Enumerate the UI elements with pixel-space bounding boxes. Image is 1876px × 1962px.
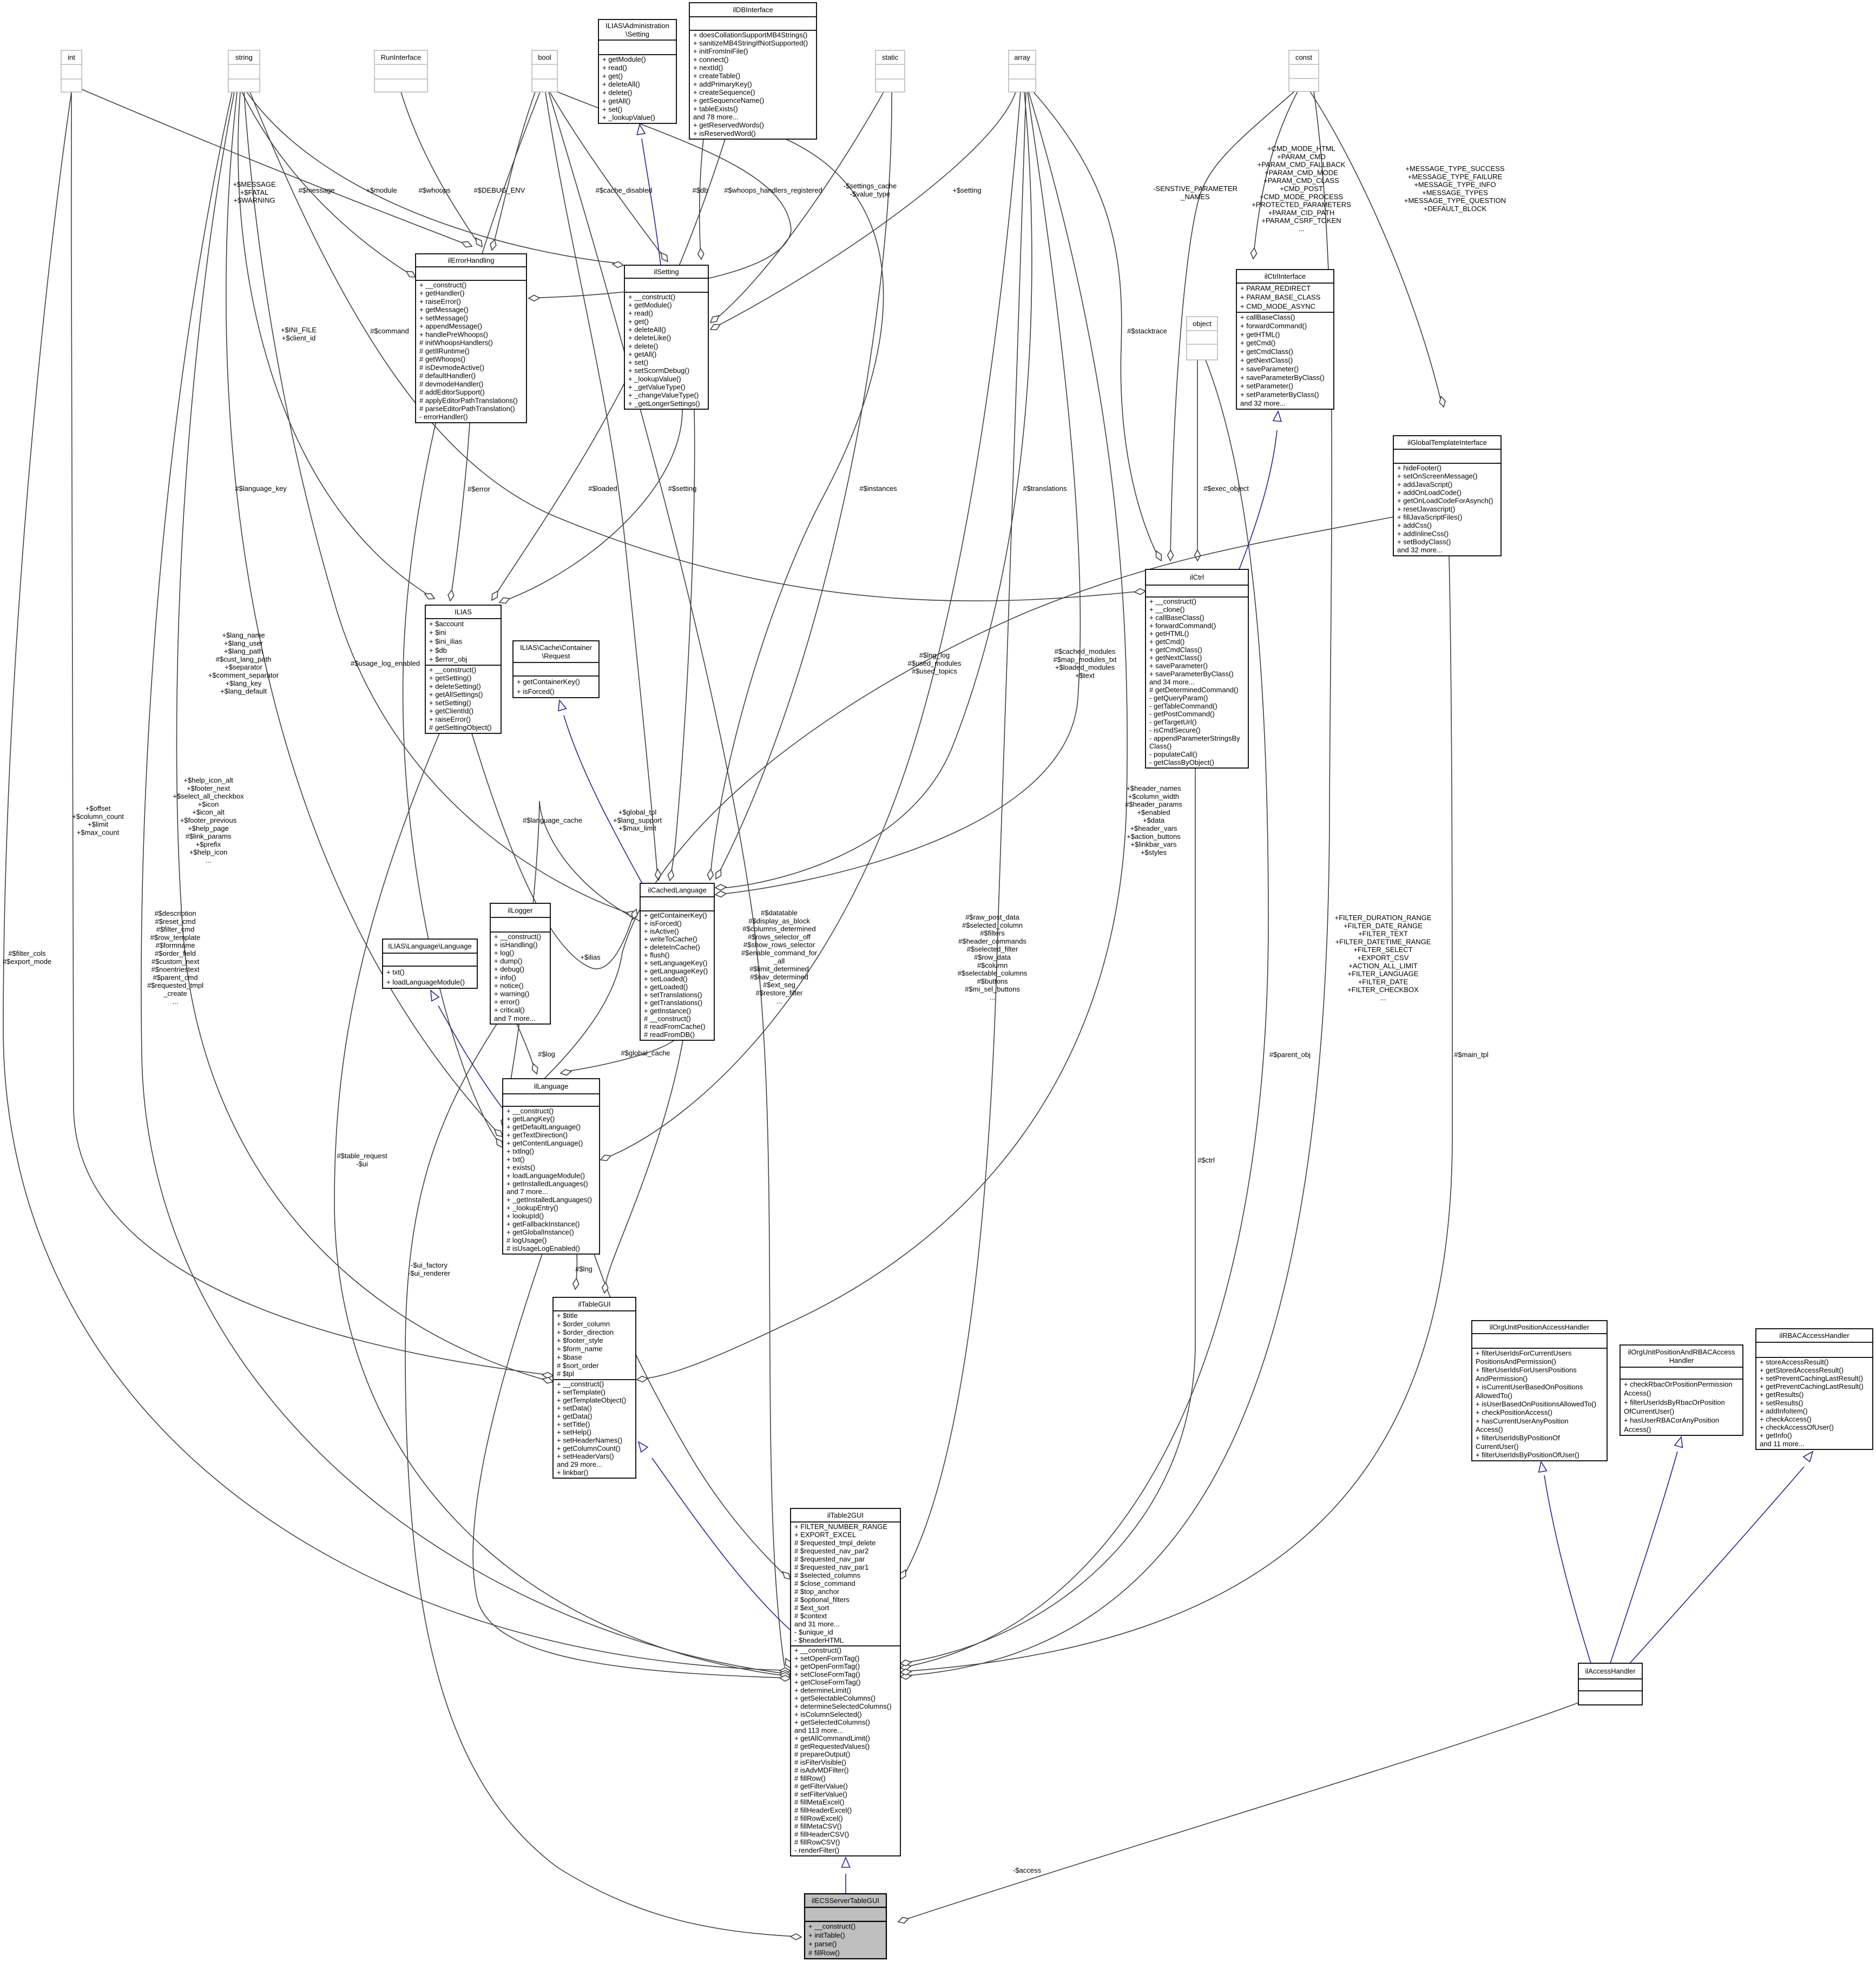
wire to (796,1830)	[438, 1006, 503, 1108]
svg-text:and 78 more...: and 78 more...	[693, 113, 739, 121]
svg-text:# logUsage(): # logUsage()	[506, 1236, 547, 1244]
svg-text:+ forwardCommand(): + forwardCommand()	[1149, 621, 1216, 629]
svg-text:- $unique_id: - $unique_id	[794, 1628, 833, 1636]
svg-text:+MESSAGE_TYPE_FAILURE: +MESSAGE_TYPE_FAILURE	[1408, 173, 1503, 181]
class array	[1009, 50, 1036, 92]
svg-text:#$setting: #$setting	[668, 484, 697, 493]
svg-text:+ read(): + read()	[602, 63, 627, 71]
svg-text:# fillMetaCSV(): # fillMetaCSV()	[794, 1822, 841, 1830]
svg-text:ilSetting: ilSetting	[654, 268, 679, 276]
svg-text:+ filterUserIdsByRbacOrPositio: + filterUserIdsByRbacOrPosition	[1624, 1398, 1725, 1406]
svg-text:#$cache_disabled: #$cache_disabled	[596, 186, 653, 194]
svg-text:# $tpl: # $tpl	[557, 1370, 574, 1378]
svg-text:#$datatable: #$datatable	[761, 909, 798, 917]
edge label +$help_icon_alt	[173, 776, 244, 864]
svg-text:# $close_command: # $close_command	[794, 1579, 855, 1587]
svg-text:+$WARNING: +$WARNING	[233, 196, 275, 205]
svg-text:+FILTER_DATE_RANGE: +FILTER_DATE_RANGE	[1344, 922, 1423, 930]
svg-text:# initWhoopsHandlers(): # initWhoopsHandlers()	[419, 339, 493, 347]
svg-text:ILIAS: ILIAS	[455, 608, 472, 616]
wire to (2848,2701)	[1544, 1475, 1591, 1663]
svg-text:+ checkAccessOfUser(): + checkAccessOfUser()	[1760, 1423, 1834, 1432]
class Language	[383, 939, 477, 988]
svg-text:and 34 more...: and 34 more...	[1149, 678, 1195, 686]
svg-text:- errorHandler(): - errorHandler()	[419, 413, 468, 421]
svg-text:+ getSequenceName(): + getSequenceName()	[693, 96, 764, 104]
wire to (1063,2382)	[576, 1254, 577, 1285]
edge label #$stacktrace	[1127, 327, 1167, 335]
svg-text:- $headerHTML: - $headerHTML	[794, 1636, 844, 1644]
class ilGlobalTemplateInterface	[1393, 436, 1501, 556]
svg-text:ilTable2GUI: ilTable2GUI	[827, 1511, 864, 1519]
svg-text:#$language_cache: #$language_cache	[523, 816, 582, 824]
wire to (929,2100)	[226, 92, 501, 1136]
svg-text:+ txtlng(): + txtlng()	[506, 1147, 534, 1156]
svg-text:- getPostCommand(): - getPostCommand()	[1149, 710, 1215, 718]
svg-text:#$requested_tmpl: #$requested_tmpl	[147, 981, 203, 989]
svg-text:+ getTranslations(): + getTranslations()	[644, 999, 702, 1007]
svg-text:+ $ini_ilias: + $ini_ilias	[429, 638, 463, 646]
edge label +MESSAGE_TYPE_SUCCESS	[1404, 165, 1506, 213]
class ilDBInterface	[689, 3, 817, 139]
svg-text:ilOrgUnitPositionAccessHandler: ilOrgUnitPositionAccessHandler	[1490, 1323, 1590, 1331]
edge label -$ui_factory	[408, 1261, 451, 1277]
svg-text:ILIAS\Language\Language: ILIAS\Language\Language	[388, 942, 472, 950]
svg-text:+ getCmdClass(): + getCmdClass()	[1240, 347, 1293, 356]
edge label +$lang_name	[208, 631, 279, 695]
class AdminSetting	[598, 19, 676, 123]
wire to (3107,2655)	[1610, 1452, 1677, 1663]
svg-text:#$formname: #$formname	[156, 941, 195, 949]
wire to (1313,609)	[715, 92, 1016, 327]
class ilOrgUnitPositionAccessHandler	[1472, 1321, 1607, 1461]
svg-text:+ setTemplate(): + setTemplate()	[557, 1388, 605, 1396]
svg-text:+ setHelp(): + setHelp()	[557, 1428, 591, 1436]
svg-text:+ getNextClass(): + getNextClass()	[1149, 654, 1202, 662]
svg-text:+ACTION_ALL_LIMIT: +ACTION_ALL_LIMIT	[1348, 962, 1418, 970]
svg-text:+$module: +$module	[366, 186, 397, 194]
wire to (1234,483)	[550, 92, 664, 258]
edge label #$db	[693, 186, 708, 194]
wire to (1217,1626)	[545, 92, 657, 876]
svg-text:PositionsAndPermission(): PositionsAndPermission()	[1476, 1357, 1556, 1366]
svg-text:+ parse(): + parse()	[808, 1940, 837, 1948]
svg-text:+$text: +$text	[1075, 671, 1095, 679]
svg-text:_all: _all	[773, 957, 785, 965]
svg-text:# addEditorSupport(): # addEditorSupport()	[419, 388, 485, 396]
svg-text:+$footer_next: +$footer_next	[187, 784, 230, 792]
svg-text:+ getClientId(): + getClientId()	[429, 707, 473, 715]
svg-text:+ getContainerKey(): + getContainerKey()	[644, 911, 707, 920]
svg-text:+ resetJavascript(): + resetJavascript()	[1397, 505, 1455, 513]
edge label #$command	[370, 327, 409, 335]
svg-text:+FILTER_DATETIME_RANGE: +FILTER_DATETIME_RANGE	[1335, 937, 1431, 946]
class ilTableGUI	[553, 1297, 636, 1478]
svg-text:#$parent_obj: #$parent_obj	[1269, 1051, 1311, 1059]
svg-text:+ _lookupValue(): + _lookupValue()	[628, 375, 681, 383]
edge label #$loaded	[588, 484, 617, 493]
svg-text:#$usage_log_enabled: #$usage_log_enabled	[351, 659, 420, 667]
svg-text:#$nav_determined: #$nav_determined	[750, 973, 808, 981]
svg-text:+ setCloseFormTag(): + setCloseFormTag()	[794, 1670, 860, 1678]
class ilRBACAccessHandler	[1756, 1329, 1873, 1449]
wire to (1180,2664)	[652, 1458, 791, 1630]
svg-text:+ getInstalledLanguages(): + getInstalledLanguages()	[506, 1179, 588, 1187]
edge label #$description	[147, 909, 203, 1006]
svg-text:+ setParameterByClass(): + setParameterByClass()	[1240, 391, 1319, 399]
svg-text:+$lang_name: +$lang_name	[222, 631, 265, 639]
svg-text:+ saveParameter(): + saveParameter()	[1240, 365, 1299, 373]
svg-text:ilCachedLanguage: ilCachedLanguage	[648, 886, 706, 894]
svg-text:+CMD_MODE_PROCESS: +CMD_MODE_PROCESS	[1260, 193, 1344, 201]
wire to (1313,596)	[714, 92, 884, 320]
svg-text:+ setResults(): + setResults()	[1760, 1399, 1803, 1407]
svg-text:# getIlRuntime(): # getIlRuntime()	[419, 347, 469, 355]
svg-text:- getTableCommand(): - getTableCommand()	[1149, 702, 1217, 710]
svg-text:+PARAM_CSRF_TOKEN: +PARAM_CSRF_TOKEN	[1261, 216, 1341, 225]
svg-text:+ __construct(): + __construct()	[429, 666, 476, 674]
svg-text:-$value_type: -$value_type	[850, 190, 890, 198]
svg-text:#$row_template: #$row_template	[150, 933, 201, 941]
svg-text:+ txt(): + txt()	[386, 968, 405, 976]
svg-text:+ loadLanguageModule(): + loadLanguageModule()	[386, 978, 465, 986]
wire to (2163,1036)	[1170, 91, 1294, 556]
svg-text:+ delete(): + delete()	[628, 342, 658, 350]
wire to (1563,3432)	[845, 1874, 846, 1894]
wire to (1461,3082)	[549, 92, 785, 1667]
svg-text:+ getGlobalInstance(): + getGlobalInstance()	[506, 1228, 574, 1236]
svg-text:+CMD_POST: +CMD_POST	[1280, 185, 1323, 193]
svg-text:and 32 more...: and 32 more...	[1397, 546, 1443, 554]
svg-text:+MESSAGE_TYPE_INFO: +MESSAGE_TYPE_INFO	[1414, 181, 1496, 189]
svg-text:# $sort_order: # $sort_order	[557, 1361, 599, 1369]
svg-text:#$used_topics: #$used_topics	[912, 667, 957, 675]
svg-text:+ txt(): + txt()	[506, 1155, 525, 1163]
wire to (2316,478)	[1254, 91, 1298, 254]
svg-text:+ dump(): + dump()	[494, 957, 522, 965]
svg-text:+ hasCurrentUserAnyPosition: + hasCurrentUserAnyPosition	[1476, 1417, 1569, 1425]
svg-text:AllowedTo(): AllowedTo()	[1476, 1392, 1512, 1400]
svg-text:+ setScormDebug(): + setScormDebug()	[628, 366, 689, 375]
svg-text:...: ...	[206, 856, 212, 864]
svg-text:and 113 more...: and 113 more...	[794, 1726, 843, 1734]
svg-text:+ filterUserIdsForCurrentUsers: + filterUserIdsForCurrentUsers	[1476, 1349, 1572, 1357]
svg-text:#$order_field: #$order_field	[155, 949, 196, 957]
svg-text:# fillRowCSV(): # fillRowCSV()	[794, 1838, 840, 1846]
svg-text:#$restore_filter: #$restore_filter	[756, 989, 803, 997]
svg-text:#$link_params: #$link_params	[186, 832, 232, 841]
svg-text:+ deleteAll(): + deleteAll()	[602, 80, 640, 88]
svg-text:#$global_cache: #$global_cache	[621, 1049, 670, 1057]
wire to (872,455)	[82, 89, 469, 245]
svg-text:+FILTER_TEXT: +FILTER_TEXT	[1358, 930, 1408, 938]
svg-text:+FILTER_LANGUAGE: +FILTER_LANGUAGE	[1348, 970, 1419, 978]
svg-text:+ isActive(): + isActive()	[644, 927, 679, 935]
svg-text:+ callBaseClass(): + callBaseClass()	[1240, 313, 1295, 321]
wire to (909,462)	[493, 92, 535, 247]
svg-text:- renderFilter(): - renderFilter()	[794, 1846, 839, 1854]
svg-text:+ connect(): + connect()	[693, 55, 728, 63]
svg-text:#$whoops: #$whoops	[418, 186, 451, 194]
svg-text:+ deleteSetting(): + deleteSetting()	[429, 683, 481, 691]
svg-text:#$message: #$message	[298, 186, 334, 194]
svg-text:+ __construct(): + __construct()	[506, 1107, 554, 1115]
svg-text:and 31 more...: and 31 more...	[794, 1620, 840, 1628]
svg-text:+ addInfoItem(): + addInfoItem()	[1760, 1407, 1808, 1415]
svg-text:...: ...	[1380, 994, 1386, 1002]
svg-text:+$client_id: +$client_id	[282, 334, 316, 342]
wire to (1664,3090)	[905, 556, 1452, 1671]
svg-text:OfCurrentUser(): OfCurrentUser()	[1624, 1407, 1674, 1415]
svg-text:+ delete(): + delete()	[602, 89, 632, 97]
svg-text:+$lang_default: +$lang_default	[220, 687, 267, 695]
svg-text:# getWhoops(): # getWhoops()	[419, 355, 465, 363]
edge label #$language_cache	[523, 816, 582, 824]
edge label #$language_key	[235, 484, 287, 493]
svg-text:# isFilterVisible(): # isFilterVisible()	[794, 1758, 846, 1766]
edge label -$settings_cache	[844, 182, 897, 198]
svg-text:+ getResults(): + getResults()	[1760, 1390, 1803, 1399]
svg-text:# $requested_nav_par1: # $requested_nav_par1	[794, 1563, 868, 1571]
svg-text:+$column_width: +$column_width	[1128, 792, 1179, 800]
wire to (1323,1624)	[718, 92, 892, 875]
svg-text:array: array	[1014, 54, 1030, 62]
svg-text:- appendParameterStringsBy: - appendParameterStringsBy	[1149, 734, 1240, 742]
svg-text:+PROTECTED_PARAMETERS: +PROTECTED_PARAMETERS	[1252, 201, 1351, 209]
svg-text:+ getAll(): + getAll()	[602, 97, 630, 105]
svg-text:+ __clone(): + __clone()	[1149, 606, 1184, 614]
wire to (2117,1092)	[250, 92, 1142, 601]
edge label #$filter_cols	[3, 949, 51, 966]
svg-text:+ setBodyClass(): + setBodyClass()	[1397, 538, 1451, 546]
svg-text:const: const	[1295, 54, 1312, 62]
edge label +$ilias	[580, 953, 601, 961]
svg-text:+ linkbar(): + linkbar()	[557, 1468, 588, 1477]
svg-text:#$map_modules_txt: #$map_modules_txt	[1053, 655, 1116, 664]
svg-text:+ $db: + $db	[429, 646, 447, 654]
svg-text:+FILTER_SELECT: +FILTER_SELECT	[1353, 946, 1412, 954]
svg-text:#$main_tpl: #$main_tpl	[1454, 1051, 1489, 1059]
svg-text:+ doesCollationSupportMB4Strin: + doesCollationSupportMB4Strings()	[693, 31, 807, 39]
svg-text:#$rows_selector_off: #$rows_selector_off	[748, 933, 811, 941]
svg-text:+ setLanguageKey(): + setLanguageKey()	[644, 959, 707, 967]
svg-text:+ getTextDirection(): + getTextDirection()	[506, 1131, 568, 1139]
svg-text:+FILTER_DURATION_RANGE: +FILTER_DURATION_RANGE	[1334, 914, 1431, 922]
wire to (1461,3097)	[334, 733, 785, 1676]
svg-text:+ filterUserIdsForUsersPositio: + filterUserIdsForUsersPositions	[1476, 1366, 1577, 1374]
class RunInterface	[374, 50, 427, 92]
class const	[1289, 50, 1319, 91]
svg-text:+ handlePreWhoops(): + handlePreWhoops()	[419, 330, 488, 338]
svg-text:ilECSServerTableGUI: ilECSServerTableGUI	[812, 1897, 879, 1905]
wire to (832,1110)	[451, 423, 470, 594]
svg-text:# fillRow(): # fillRow()	[808, 1948, 840, 1957]
svg-text:# applyEditorPathTranslations(: # applyEditorPathTranslations()	[419, 396, 518, 404]
svg-text:+ __construct(): + __construct()	[557, 1380, 604, 1388]
svg-text:+ _changeValueType(): + _changeValueType()	[628, 391, 699, 399]
svg-text:-$ui_renderer: -$ui_renderer	[408, 1269, 451, 1277]
svg-text:+$MESSAGE: +$MESSAGE	[233, 180, 275, 188]
svg-text:+$lang_key: +$lang_key	[226, 679, 262, 687]
svg-text:#$loaded: #$loaded	[588, 484, 617, 493]
svg-text:\Setting: \Setting	[626, 30, 649, 38]
svg-text:+ raiseError(): + raiseError()	[429, 716, 471, 724]
svg-text:+ getCmd(): + getCmd()	[1149, 638, 1184, 646]
svg-text:+ isCurrentUserBasedOnPosition: + isCurrentUserBasedOnPositions	[1476, 1383, 1583, 1391]
svg-text:_NAMES: _NAMES	[1180, 193, 1210, 201]
svg-text:#$buttons: #$buttons	[977, 977, 1008, 985]
wire to (923,1113)	[504, 409, 682, 601]
svg-text:+PARAM_CMD: +PARAM_CMD	[1277, 153, 1326, 161]
edge label #$lng_log	[907, 651, 962, 675]
svg-text:Access(): Access()	[1476, 1426, 1503, 1434]
svg-text:#$language_key: #$language_key	[235, 484, 287, 493]
svg-text:#$ctrl: #$ctrl	[1197, 1156, 1215, 1164]
svg-text:+$comment_separator: +$comment_separator	[208, 671, 279, 679]
svg-text:#$cached_modules: #$cached_modules	[1055, 647, 1116, 655]
svg-text:+ log(): + log()	[494, 949, 514, 957]
edge label +CMD_MODE_HTML	[1252, 145, 1351, 233]
svg-text:#$translations: #$translations	[1023, 484, 1067, 493]
wire to (2668,752)	[1310, 91, 1441, 403]
svg-text:+ setSetting(): + setSetting()	[429, 699, 471, 707]
svg-text:+ set(): + set()	[628, 358, 648, 366]
svg-text:+ getTemplateObject(): + getTemplateObject()	[557, 1396, 626, 1404]
svg-text:+ nextId(): + nextId()	[693, 64, 723, 72]
svg-text:+ getColumnCount(): + getColumnCount()	[557, 1444, 620, 1452]
svg-text:+ setPreventCachingLastResult(: + setPreventCachingLastResult()	[1760, 1374, 1863, 1382]
svg-text:+ createTable(): + createTable()	[693, 72, 740, 80]
svg-text:+$help_icon: +$help_icon	[189, 848, 227, 856]
svg-text:+ __construct(): + __construct()	[419, 281, 466, 289]
svg-text:+ get(): + get()	[628, 317, 649, 325]
edge label +$offset	[72, 804, 124, 836]
svg-text:+ writeToCache(): + writeToCache()	[644, 935, 697, 943]
svg-text:# $selected_columns: # $selected_columns	[794, 1571, 861, 1579]
svg-text:+ getReservedWords(): + getReservedWords()	[693, 121, 764, 129]
svg-text:int: int	[68, 54, 75, 62]
svg-text:# getSettingObject(): # getSettingObject()	[429, 724, 492, 732]
svg-text:# $ext_sort: # $ext_sort	[794, 1604, 830, 1612]
svg-text:#$column: #$column	[977, 961, 1008, 969]
wire to (1110,2143)	[605, 92, 1021, 1158]
svg-text:ilCtrl: ilCtrl	[1190, 573, 1204, 581]
svg-text:+$lang_user: +$lang_user	[224, 639, 264, 647]
edge label #$cache_disabled	[596, 186, 653, 194]
svg-text:...: ...	[776, 997, 782, 1005]
svg-text:+ getOpenFormTag(): + getOpenFormTag()	[794, 1662, 860, 1670]
svg-text:+ determineLimit(): + determineLimit()	[794, 1687, 851, 1695]
svg-text:+ $order_column: + $order_column	[557, 1320, 610, 1328]
wire to (1296,479)	[700, 139, 703, 255]
svg-text:ilTableGUI: ilTableGUI	[578, 1300, 611, 1308]
svg-text:+ determineSelectedColumns(): + determineSelectedColumns()	[794, 1702, 892, 1710]
svg-text:string: string	[235, 54, 253, 62]
svg-text:+ getCloseFormTag(): + getCloseFormTag()	[794, 1678, 860, 1687]
svg-text:-$settings_cache: -$settings_cache	[844, 182, 897, 190]
wire to (1461,3087)	[3, 92, 786, 1670]
svg-text:#$cust_lang_path: #$cust_lang_path	[216, 655, 272, 663]
svg-text:# getRequestedValues(): # getRequestedValues()	[794, 1742, 870, 1750]
svg-text:ILIAS\Cache\Container: ILIAS\Cache\Container	[520, 644, 593, 652]
svg-text:+ $order_direction: + $order_direction	[557, 1328, 614, 1336]
svg-text:+$help_page: +$help_page	[188, 824, 229, 832]
edge label #$global_cache	[621, 1049, 670, 1057]
svg-text:# $top_anchor: # $top_anchor	[794, 1587, 840, 1596]
svg-text:ilAccessHandler: ilAccessHandler	[1585, 1667, 1636, 1675]
svg-text:#$header_commands: #$header_commands	[958, 937, 1026, 945]
wire to (1312,1626)	[710, 139, 884, 876]
edge label +$MESSAGE	[233, 180, 275, 205]
svg-text:ilDBInterface: ilDBInterface	[733, 6, 773, 14]
svg-text:+ getNextClass(): + getNextClass()	[1240, 356, 1293, 364]
svg-text:+ getAllCommandLimit(): + getAllCommandLimit()	[794, 1734, 870, 1742]
svg-text:+ setHeaderVars(): + setHeaderVars()	[557, 1452, 614, 1460]
svg-text:...: ...	[1299, 225, 1305, 233]
svg-text:...: ...	[173, 998, 179, 1006]
svg-text:+FILTER_CHECKBOX: +FILTER_CHECKBOX	[1347, 986, 1419, 994]
svg-text:+ isColumnSelected(): + isColumnSelected()	[794, 1710, 862, 1718]
svg-text:#$whoops_handlers_registered: #$whoops_handlers_registered	[724, 186, 822, 194]
svg-text:# devmodeHandler(): # devmodeHandler()	[419, 380, 484, 388]
wire to (1664,2918)	[904, 92, 1026, 1576]
class ILIAS	[425, 605, 501, 733]
wire to (1238,1627)	[670, 409, 695, 877]
edge label #$instances	[859, 484, 897, 493]
svg-text:#$selectable_columns: #$selectable_columns	[958, 969, 1028, 977]
svg-text:-SENSTIVE_PARAMETER: -SENSTIVE_PARAMETER	[1153, 185, 1237, 193]
svg-text:+ _lookupEntry(): + _lookupEntry()	[506, 1204, 558, 1212]
svg-text:+ setMessage(): + setMessage()	[419, 314, 468, 322]
edge label +$module	[366, 186, 397, 194]
svg-text:Access(): Access()	[1624, 1389, 1651, 1397]
svg-text:+ appendMessage(): + appendMessage()	[419, 322, 482, 330]
svg-text:AndPermission(): AndPermission()	[1476, 1374, 1528, 1382]
svg-text:+ saveParameterByClass(): + saveParameterByClass()	[1149, 670, 1234, 678]
svg-text:+ createSequence(): + createSequence()	[693, 88, 755, 96]
svg-text:...: ...	[990, 993, 996, 1001]
svg-text:+ isReservedWord(): + isReservedWord()	[693, 129, 756, 137]
wire to (909,1109)	[495, 139, 725, 596]
svg-text:+ CMD_MODE_ASYNC: + CMD_MODE_ASYNC	[1240, 302, 1315, 310]
svg-text:+ error(): + error()	[494, 998, 519, 1006]
svg-text:# setFilterValue(): # setFilterValue()	[794, 1790, 847, 1799]
svg-text:+PARAM_CMD_FALLBACK: +PARAM_CMD_FALLBACK	[1258, 161, 1346, 169]
svg-text:bool: bool	[538, 54, 551, 62]
svg-text:+ lookupId(): + lookupId()	[506, 1212, 544, 1220]
svg-text:#$used_modules: #$used_modules	[907, 659, 962, 667]
svg-text:#$custom_next: #$custom_next	[152, 957, 200, 966]
svg-text:+ setHeaderNames(): + setHeaderNames()	[557, 1436, 622, 1445]
svg-text:#$filter_cols: #$filter_cols	[8, 949, 46, 957]
class bool	[532, 50, 557, 92]
svg-text:#$table_request: #$table_request	[337, 1152, 387, 1160]
svg-text:+ getData(): + getData()	[557, 1412, 592, 1420]
svg-text:-$ui_factory: -$ui_factory	[411, 1261, 447, 1269]
svg-text:+ getLanguageKey(): + getLanguageKey()	[644, 967, 708, 975]
wire to (2362,760)	[1239, 430, 1277, 569]
svg-text:-$ui: -$ui	[356, 1160, 368, 1168]
svg-text:+ $title: + $title	[557, 1311, 578, 1320]
wire to (1461,3101)	[473, 1254, 784, 1678]
wire to (1022,2542)	[71, 92, 548, 1375]
svg-text:#$enable_command_for: #$enable_command_for	[741, 949, 818, 957]
svg-text:- getTargetUrl(): - getTargetUrl()	[1149, 718, 1196, 726]
svg-text:+$data: +$data	[1143, 816, 1165, 824]
svg-text:+ storeAccessResult(): + storeAccessResult()	[1760, 1358, 1829, 1366]
svg-text:+$offset: +$offset	[85, 804, 111, 812]
svg-text:+PARAM_CID_PATH: +PARAM_CID_PATH	[1268, 208, 1334, 216]
